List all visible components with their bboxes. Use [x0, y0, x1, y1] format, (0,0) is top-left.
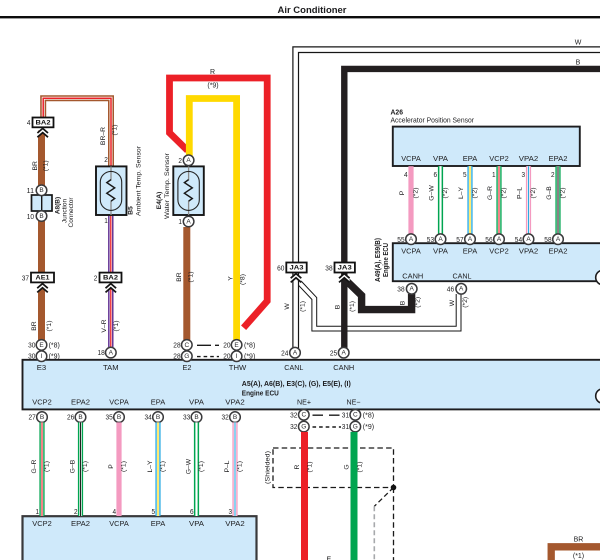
svg-text:(*2): (*2) [462, 297, 469, 308]
svg-text:A: A [459, 286, 464, 293]
svg-text:E2: E2 [183, 363, 192, 372]
svg-text:BR: BR [31, 321, 38, 331]
svg-text:31: 31 [342, 412, 349, 419]
svg-text:A5(A), A6(B), E3(C), (G), E5(E: A5(A), A6(B), E3(C), (G), E5(E), (I) [242, 379, 352, 388]
svg-text:25: 25 [330, 350, 337, 357]
svg-text:54: 54 [515, 237, 522, 244]
svg-text:27: 27 [29, 415, 36, 422]
svg-text:G–R: G–R [31, 459, 38, 473]
svg-text:BA2: BA2 [103, 275, 118, 282]
svg-text:(*1): (*1) [349, 301, 356, 312]
svg-text:E4(A): E4(A) [156, 192, 163, 210]
svg-text:(*9): (*9) [244, 354, 255, 361]
svg-text:VCP2: VCP2 [489, 247, 509, 256]
svg-text:P: P [108, 464, 115, 469]
svg-text:(*1): (*1) [188, 272, 195, 283]
wire B branch to pin 38 CANH [347, 281, 412, 309]
svg-text:A: A [526, 236, 531, 243]
svg-text:32: 32 [290, 412, 297, 419]
svg-text:1: 1 [492, 172, 496, 179]
svg-text:(*2): (*2) [415, 297, 422, 308]
wire G-R (*2) A26 pin 1 [496, 166, 501, 234]
svg-text:R: R [294, 464, 301, 469]
svg-text:VPA: VPA [189, 519, 204, 528]
svg-text:A: A [293, 350, 298, 357]
connector arc on right edge of A49 ECU [596, 270, 600, 285]
svg-text:(*2): (*2) [530, 188, 537, 199]
svg-text:Water Temp. Sensor: Water Temp. Sensor [164, 152, 171, 219]
svg-text:30: 30 [28, 354, 35, 361]
svg-text:6: 6 [434, 172, 438, 179]
svg-text:1: 1 [104, 218, 108, 225]
svg-text:G: G [301, 424, 306, 431]
wire W branch to pin 46 CANL [299, 282, 459, 328]
wire V-R from B5 to BA2/TAM [108, 216, 113, 274]
svg-text:(*1): (*1) [198, 461, 205, 472]
ambient temp sensor B5 [96, 166, 127, 215]
svg-text:I: I [236, 353, 238, 360]
svg-text:55: 55 [397, 237, 404, 244]
svg-text:26: 26 [67, 415, 74, 422]
svg-text:A49(A), E59(B): A49(A), E59(B) [375, 238, 382, 282]
svg-text:20: 20 [223, 354, 230, 361]
svg-text:B: B [39, 187, 43, 194]
wire BR from E4 pin 1 to E2 [183, 227, 190, 340]
shield gray dashed line [373, 506, 375, 560]
svg-text:18: 18 [98, 350, 105, 357]
shield drain dashed line down [393, 488, 395, 560]
svg-text:VPA2: VPA2 [225, 519, 245, 528]
svg-text:NE+: NE+ [297, 397, 311, 406]
junction connector A8(B) [32, 195, 53, 211]
svg-text:W: W [284, 303, 291, 310]
svg-text:P–L: P–L [517, 187, 524, 199]
svg-text:AE1: AE1 [36, 275, 50, 282]
svg-text:L–Y: L–Y [458, 186, 465, 199]
svg-text:CANH: CANH [402, 271, 423, 280]
svg-text:(*9): (*9) [207, 83, 218, 90]
chevron below JA3 38 [339, 274, 350, 283]
wire BR left column (E3) [38, 131, 45, 186]
svg-text:E: E [39, 342, 44, 349]
svg-text:VCPA: VCPA [401, 247, 421, 256]
svg-text:VCP2: VCP2 [32, 397, 52, 406]
svg-text:G–B: G–B [546, 186, 553, 200]
svg-text:5: 5 [463, 172, 467, 179]
svg-text:Connector: Connector [68, 197, 75, 228]
svg-text:24: 24 [281, 350, 288, 357]
svg-text:VPA: VPA [433, 247, 448, 256]
svg-text:BR: BR [176, 272, 183, 282]
wire G-R (*1) bottom pin 1 [39, 422, 44, 516]
svg-text:1: 1 [178, 219, 182, 226]
wire Y from water temp sensor [189, 99, 236, 342]
svg-text:A: A [497, 236, 502, 243]
wire P (*1) bottom pin 4 [116, 422, 121, 516]
svg-text:A: A [109, 350, 114, 357]
chevron below JA3 60 [291, 274, 302, 283]
svg-text:C: C [184, 342, 189, 349]
svg-text:A: A [409, 236, 414, 243]
svg-text:VPA: VPA [189, 397, 204, 406]
wire R (*1) NE+ [301, 432, 308, 560]
svg-text:(*1): (*1) [237, 461, 244, 472]
svg-text:A: A [410, 286, 415, 293]
svg-text:31: 31 [342, 424, 349, 431]
wire W top (CAN) [296, 50, 600, 348]
svg-text:4: 4 [113, 509, 117, 516]
engine ECU block A5(A),A6(B),E3(C),(G),E5(E),(I) [23, 360, 600, 410]
svg-text:CANL: CANL [284, 363, 303, 372]
svg-text:Ambient Temp. Sensor: Ambient Temp. Sensor [135, 145, 142, 216]
svg-text:(*1): (*1) [573, 553, 584, 560]
svg-text:(*8): (*8) [244, 342, 255, 349]
svg-text:EPA2: EPA2 [549, 154, 568, 163]
svg-text:56: 56 [485, 237, 492, 244]
svg-text:VPA2: VPA2 [225, 397, 245, 406]
svg-text:10: 10 [27, 214, 34, 221]
svg-text:Accelerator Position Sensor: Accelerator Position Sensor [391, 115, 475, 124]
svg-text:4: 4 [27, 120, 31, 127]
svg-text:L–Y: L–Y [147, 460, 154, 473]
svg-text:W: W [449, 299, 456, 306]
svg-text:(*8): (*8) [49, 342, 60, 349]
svg-text:(*1): (*1) [111, 125, 118, 136]
svg-text:B: B [233, 414, 237, 421]
svg-text:B: B [334, 304, 341, 309]
svg-text:(*1): (*1) [160, 461, 167, 472]
connector arc on right edge of engine ECU [596, 389, 600, 404]
svg-text:37: 37 [22, 275, 29, 282]
wire BR-R from BA2 to B5 pin 2 [43, 98, 111, 167]
svg-text:R: R [210, 69, 215, 76]
svg-text:4: 4 [404, 172, 408, 179]
svg-text:(*2): (*2) [560, 188, 567, 199]
svg-text:Air Conditioner: Air Conditioner [278, 5, 347, 15]
svg-text:G–W: G–W [186, 458, 193, 474]
svg-text:I: I [41, 353, 43, 360]
svg-text:(*1): (*1) [44, 461, 51, 472]
svg-text:1: 1 [36, 509, 40, 516]
svg-text:CANH: CANH [333, 363, 354, 372]
svg-text:11: 11 [27, 188, 34, 195]
svg-text:38: 38 [397, 286, 404, 293]
svg-text:28: 28 [173, 342, 180, 349]
wire P (*2) A26 pin 4 [408, 166, 413, 234]
svg-text:B: B [40, 414, 44, 421]
svg-text:B: B [576, 59, 581, 66]
svg-text:A: A [468, 236, 473, 243]
svg-text:6: 6 [190, 509, 194, 516]
svg-text:(*1): (*1) [307, 462, 314, 473]
svg-text:B: B [117, 414, 121, 421]
svg-text:BA2: BA2 [36, 119, 51, 126]
svg-text:P: P [399, 190, 406, 195]
svg-text:32: 32 [290, 424, 297, 431]
chevron below AE1 [37, 284, 48, 293]
chevron below BA2 (TAM) [106, 284, 117, 293]
svg-text:G: G [344, 464, 351, 469]
wire G-W (*2) A26 pin 6 [438, 166, 443, 234]
svg-text:C: C [353, 412, 358, 419]
svg-text:(*9): (*9) [49, 354, 60, 361]
svg-text:THW: THW [229, 363, 247, 372]
svg-text:33: 33 [183, 415, 190, 422]
svg-text:2: 2 [104, 157, 108, 164]
svg-text:(*1): (*1) [82, 461, 89, 472]
svg-text:VCPA: VCPA [401, 154, 421, 163]
svg-text:VPA: VPA [433, 154, 448, 163]
svg-text:(*2): (*2) [413, 188, 420, 199]
svg-text:2: 2 [74, 509, 78, 516]
wire L-Y (*2) A26 pin 5 [467, 166, 472, 234]
svg-text:G–R: G–R [487, 186, 494, 200]
svg-text:B: B [156, 414, 160, 421]
svg-text:A: A [186, 218, 191, 225]
wire L-Y (*1) bottom pin 5 [155, 422, 160, 516]
svg-text:(*2): (*2) [472, 188, 479, 199]
svg-text:VPA2: VPA2 [519, 154, 539, 163]
svg-text:38: 38 [325, 265, 332, 272]
svg-text:VCP2: VCP2 [489, 154, 509, 163]
wire P-L (*1) bottom pin 3 [232, 422, 237, 516]
svg-text:JA3: JA3 [290, 265, 304, 272]
svg-text:(*1): (*1) [356, 462, 363, 473]
svg-text:BR–R: BR–R [100, 127, 107, 145]
svg-text:A: A [556, 236, 561, 243]
svg-text:G–W: G–W [429, 185, 436, 201]
svg-text:G: G [184, 353, 189, 360]
svg-text:VCPA: VCPA [109, 519, 129, 528]
svg-text:A: A [342, 350, 347, 357]
svg-text:G–B: G–B [70, 459, 77, 473]
wire G-B (*1) bottom pin 2 [78, 422, 83, 516]
svg-text:(Shielded): (Shielded) [265, 451, 272, 484]
svg-text:(*8): (*8) [240, 274, 247, 285]
svg-text:57: 57 [456, 237, 463, 244]
header rule line [0, 16, 600, 18]
wire G-W (*1) bottom pin 6 [194, 422, 199, 516]
wire G (*1) NE- [351, 432, 358, 560]
svg-text:2: 2 [178, 158, 182, 165]
svg-text:32: 32 [222, 415, 229, 422]
svg-text:(*8): (*8) [363, 412, 374, 419]
svg-text:Y: Y [228, 276, 235, 281]
svg-text:EPA2: EPA2 [71, 519, 90, 528]
svg-text:28: 28 [173, 354, 180, 361]
svg-text:(*1): (*1) [42, 160, 49, 171]
svg-text:34: 34 [145, 415, 152, 422]
svg-text:Engine ECU: Engine ECU [242, 388, 279, 397]
svg-text:(*2): (*2) [501, 188, 508, 199]
svg-text:(*1): (*1) [121, 461, 128, 472]
svg-text:46: 46 [447, 286, 454, 293]
bottom accelerator sensor block [23, 516, 257, 560]
svg-text:B5: B5 [128, 206, 135, 215]
svg-text:VPA2: VPA2 [519, 247, 539, 256]
svg-text:EPA: EPA [151, 519, 166, 528]
wire B top (CAN) [344, 69, 600, 348]
svg-text:5: 5 [152, 509, 156, 516]
svg-text:TAM: TAM [103, 363, 119, 372]
wire BR bottom right [551, 547, 600, 560]
svg-text:(*1): (*1) [300, 301, 307, 312]
svg-text:EPA2: EPA2 [549, 247, 568, 256]
wire G-B (*2) A26 pin 2 [555, 166, 560, 234]
svg-text:NE−: NE− [347, 397, 361, 406]
svg-text:VCPA: VCPA [109, 397, 129, 406]
svg-text:(*9): (*9) [363, 424, 374, 431]
svg-text:BR: BR [574, 536, 584, 543]
water temp sensor E4(A) [173, 166, 204, 215]
svg-text:58: 58 [544, 237, 551, 244]
svg-text:(*1): (*1) [113, 321, 120, 332]
svg-text:E3: E3 [37, 363, 47, 372]
svg-text:BR: BR [32, 161, 39, 171]
shield dashed diagonal [374, 488, 393, 507]
svg-text:EPA: EPA [463, 247, 478, 256]
svg-text:3: 3 [522, 172, 526, 179]
svg-text:EPA: EPA [151, 397, 166, 406]
svg-text:20: 20 [223, 342, 230, 349]
svg-text:CANL: CANL [453, 271, 472, 280]
svg-text:(*2): (*2) [442, 188, 449, 199]
svg-text:(*1): (*1) [46, 321, 53, 332]
svg-text:Engine ECU: Engine ECU [383, 243, 390, 277]
svg-text:E: E [327, 556, 332, 560]
svg-text:B: B [39, 213, 43, 220]
shield junction dot [391, 485, 397, 491]
svg-text:W: W [575, 39, 582, 46]
svg-text:30: 30 [28, 342, 35, 349]
svg-text:P–L: P–L [224, 460, 231, 472]
svg-text:EPA2: EPA2 [71, 397, 90, 406]
svg-text:2: 2 [551, 172, 555, 179]
wire P-L (*2) A26 pin 3 [526, 166, 531, 234]
svg-text:A: A [438, 236, 443, 243]
svg-text:B: B [78, 414, 82, 421]
svg-text:B: B [194, 414, 198, 421]
svg-text:A: A [186, 157, 191, 164]
wire R (*9) [170, 78, 268, 328]
svg-text:VCP2: VCP2 [32, 519, 52, 528]
shielded cable dashed box [273, 448, 394, 488]
svg-text:V–R: V–R [101, 319, 108, 332]
svg-text:3: 3 [229, 509, 233, 516]
svg-text:E: E [234, 342, 239, 349]
chevron below BA2 [37, 128, 48, 137]
svg-text:2: 2 [94, 275, 98, 282]
svg-text:53: 53 [427, 237, 434, 244]
svg-text:C: C [301, 412, 306, 419]
engine ECU block A49(A),E59(B) [393, 243, 600, 281]
svg-text:60: 60 [277, 265, 284, 272]
svg-text:G: G [353, 424, 358, 431]
svg-text:JA3: JA3 [338, 265, 352, 272]
svg-text:EPA: EPA [463, 154, 478, 163]
svg-text:35: 35 [106, 415, 113, 422]
svg-text:B: B [400, 300, 407, 305]
